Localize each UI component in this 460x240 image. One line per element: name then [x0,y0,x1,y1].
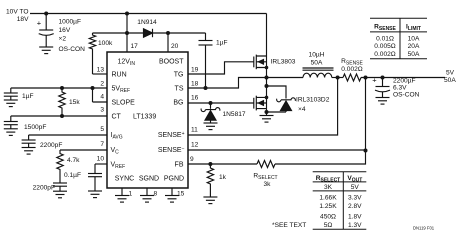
capacitor C8 2200uF output [372,76,419,99]
junction 5Vref [91,86,95,90]
svg-text:+: + [37,19,42,28]
ground C7 [88,191,102,198]
svg-text:1.3V: 1.3V [348,222,362,229]
resistor R1 100k [89,33,113,74]
svg-text:18: 18 [191,81,199,88]
ground C5 [22,148,36,155]
svg-text:BOOST: BOOST [159,59,184,66]
svg-text:BG: BG [173,100,183,107]
wire TS [188,78,303,89]
junction 12Vin branch [125,12,129,16]
ground Q2 source [260,112,274,122]
junction Q2 source [265,110,269,114]
wire SENSE+ [188,78,338,136]
svg-text:16: 16 [191,95,199,102]
pin numbers right column [190,67,199,164]
svg-text:OS-CON: OS-CON [59,46,86,53]
svg-text:1k: 1k [219,174,227,181]
svg-text:450Ω: 450Ω [320,213,336,220]
svg-text:0.002Ω: 0.002Ω [374,51,396,58]
wire 12Vin horizontal [93,32,206,34]
svg-text:1µF: 1µF [216,40,228,47]
ground R5 [203,197,217,204]
svg-text:1500pF: 1500pF [24,124,46,131]
svg-text:5V: 5V [351,184,360,191]
svg-text:FB: FB [175,162,184,169]
wire SENSE- [188,149,366,151]
wire 5Vref row [11,87,107,89]
svg-text:OS-CON: OS-CON [393,92,420,99]
svg-text:7: 7 [100,141,104,148]
svg-text:TS: TS [175,86,184,93]
svg-text:1N914: 1N914 [137,19,157,26]
svg-text:10: 10 [97,156,105,163]
resistor R2 15k [59,88,81,116]
svg-text:15k: 15k [69,99,80,106]
svg-text:3: 3 [100,107,104,114]
svg-text:×4: ×4 [298,106,306,113]
svg-text:18V: 18V [17,16,29,23]
wire L1 to Rsense [332,77,343,79]
wire SYNC pin ground [121,188,123,196]
table Rsense Ilimit [370,18,427,59]
ground SYNC [115,196,129,203]
junction FB divider [208,162,212,166]
wire RUN stub [93,73,108,75]
svg-text:1000µF: 1000µF [59,19,82,26]
wire SGND pin ground [146,188,148,196]
wire pin 17 [126,33,128,52]
junction Q2 drain stub [265,96,269,100]
svg-text:IRL3103D2: IRL3103D2 [296,97,330,104]
resistor R4 Rsense 0.002 [341,58,363,81]
svg-text:SGND: SGND [139,176,159,183]
wire TG [188,62,254,74]
pin numbers left column [97,67,105,163]
svg-text:17: 17 [131,43,139,50]
svg-text:5Ω: 5Ω [324,222,333,229]
svg-text:50A: 50A [408,51,420,58]
svg-text:0.01Ω: 0.01Ω [376,35,394,42]
resistor R3 4.7k [57,150,80,183]
svg-text:5V: 5V [446,70,455,77]
ground C3 [4,100,18,107]
svg-text:2200µF: 2200µF [393,78,416,85]
svg-text:16V: 16V [59,27,71,34]
junction pin17 [125,31,129,35]
resistor R6 Rselect 3k [253,161,277,189]
svg-text:50A: 50A [311,60,323,67]
junction boost cap on TS [204,86,208,90]
junction sense+ [336,76,340,80]
wire top rail VIN [30,13,267,15]
svg-text:9: 9 [190,156,194,163]
junction sense- [364,76,368,80]
svg-text:10A: 10A [408,35,420,42]
svg-text:CT: CT [112,114,122,121]
wire CT row [11,115,107,117]
wire Q2 source down [266,109,268,112]
svg-text:0.005Ω: 0.005Ω [374,43,396,50]
junction input cap [44,12,48,16]
junction sense- vert [364,149,368,153]
svg-text:3K: 3K [324,184,333,191]
svg-text:1.25K: 1.25K [319,203,337,210]
capacitor C3 1uF [4,88,34,100]
svg-text:IRL3803: IRL3803 [271,58,296,65]
ground PGND [165,196,179,203]
wire pin 20 [167,33,169,52]
svg-text:6.3V: 6.3V [393,85,407,92]
node VOUT label [444,70,456,85]
svg-text:1: 1 [129,191,133,198]
wire PGND pin ground [171,188,173,196]
svg-text:DN119 F01: DN119 F01 [413,226,435,231]
ground C6 [53,191,67,198]
capacitor C4 1500pF [4,116,47,131]
svg-text:*SEE TEXT: *SEE TEXT [272,222,306,229]
svg-text:1µF: 1µF [22,93,34,100]
capacitor C1 1000uF input [37,14,85,54]
svg-text:100k: 100k [98,40,113,47]
svg-text:LT1339: LT1339 [133,114,156,121]
svg-text:19: 19 [191,67,199,74]
inductor L1 10uH [303,52,334,78]
svg-text:4.7k: 4.7k [67,157,80,164]
ground D2 [204,123,218,130]
transistor Q2 IRL3103D2 [254,78,330,114]
transistor Q1 IRL3803 [254,14,296,70]
wire Vref row [95,163,107,165]
svg-text:10µH: 10µH [309,52,325,59]
svg-text:3k: 3k [264,181,272,188]
capacitor C2 1uF boost [199,33,228,88]
wire Iavg row [29,134,107,136]
svg-text:2200pF: 2200pF [33,185,55,192]
diode D1 1N914 [137,19,157,37]
wire 12Vin branch vertical [126,14,128,34]
svg-text:2: 2 [100,81,104,88]
wire VOUT to Rselect vertical [275,78,366,165]
svg-text:SYNC: SYNC [115,176,134,183]
svg-text:+: + [372,76,377,85]
pin numbers bottom [129,191,185,198]
ground SGND [140,196,154,203]
resistor R5 1k [207,164,226,197]
svg-text:5: 5 [100,126,104,133]
wire BG [188,102,254,104]
svg-text:15: 15 [177,191,185,198]
svg-text:13: 13 [97,67,105,74]
capacitor C5 2200pF [22,135,63,149]
svg-text:TG: TG [174,72,184,79]
svg-text:SENSE+: SENSE+ [158,131,185,139]
svg-text:RUN: RUN [112,72,127,79]
junction output cap [381,76,385,80]
svg-text:2200pF: 2200pF [40,142,62,149]
svg-text:SENSE−: SENSE− [158,146,185,154]
IC U1 LT1339 [107,52,188,188]
junction 1N5817 on BG [209,101,213,105]
wire Q1 source to switch node [266,68,268,78]
diode D3 schottky of Q2 [267,86,296,112]
junction Q2 schottky tap [265,84,269,88]
svg-text:3.3V: 3.3V [348,195,362,202]
wire Rsense to output [361,77,445,79]
wire Vc row [60,149,107,151]
capacitor C7 0.1uF [64,164,102,191]
svg-text:SLOPE: SLOPE [112,100,136,107]
pin numbers top [131,43,179,50]
svg-text:1N5817: 1N5817 [223,111,246,118]
svg-text:0.1µF: 0.1µF [64,172,81,179]
svg-text:12: 12 [191,142,199,149]
diode D2 1N5817 schottky [201,103,246,123]
svg-text:×2: ×2 [59,36,67,43]
svg-text:1.8V: 1.8V [348,213,362,220]
svg-text:11: 11 [191,127,198,134]
wire slope link [93,88,108,102]
ground input cap [39,47,53,54]
capacitor C6 2200pF [33,183,67,192]
svg-text:8: 8 [154,191,158,198]
svg-text:1.66K: 1.66K [319,195,337,202]
junction pin20 [166,31,170,35]
table Rselect Vout [313,172,367,230]
svg-text:4: 4 [100,94,104,101]
ground C8 [376,98,390,105]
junction Q1 source stub [265,66,269,70]
ground C4 [4,129,18,136]
svg-text:50A: 50A [444,77,456,84]
junction switch node [265,76,269,80]
wire FB [188,163,257,165]
svg-text:0.002Ω: 0.002Ω [341,66,363,73]
svg-text:20A: 20A [408,43,420,50]
svg-text:2.8V: 2.8V [348,203,362,210]
node VIN input label [6,9,29,24]
svg-text:10V TO: 10V TO [6,9,28,16]
svg-text:20: 20 [171,43,179,50]
svg-text:PGND: PGND [164,176,184,183]
